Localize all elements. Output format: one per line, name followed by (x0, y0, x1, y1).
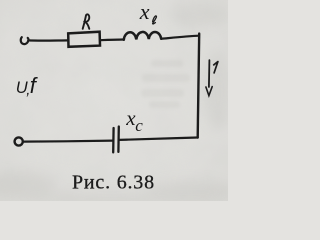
svg-text:Рис. 6.38: Рис. 6.38 (72, 171, 155, 193)
current arrow I (208, 60, 211, 87)
label R (83, 14, 90, 28)
capacitor C1 left plate (112, 128, 115, 152)
paper background (0, 0, 228, 201)
label I (214, 62, 218, 73)
svg-text:c: c (135, 116, 143, 135)
wire right vertical (198, 34, 200, 138)
inductor L1 (3 humps) (124, 32, 161, 40)
capacitor C1 right plate (117, 127, 120, 152)
wire resistor to inductor (100, 38, 124, 41)
wire top-left (terminal to resistor) (28, 39, 67, 41)
wire inductor to top-right corner (161, 36, 199, 39)
bleed-through ghost text (141, 60, 190, 108)
current arrowhead (206, 87, 212, 96)
wire bottom-left (capacitor to terminal) (24, 141, 114, 142)
terminal T1 (top-left, open hook) (21, 37, 29, 44)
svg-text:x: x (139, 0, 150, 24)
terminal T2 (bottom-left ring) (15, 137, 23, 145)
wire bottom-right (corner to capacitor) (119, 138, 198, 140)
resistor R1 body (68, 32, 100, 47)
